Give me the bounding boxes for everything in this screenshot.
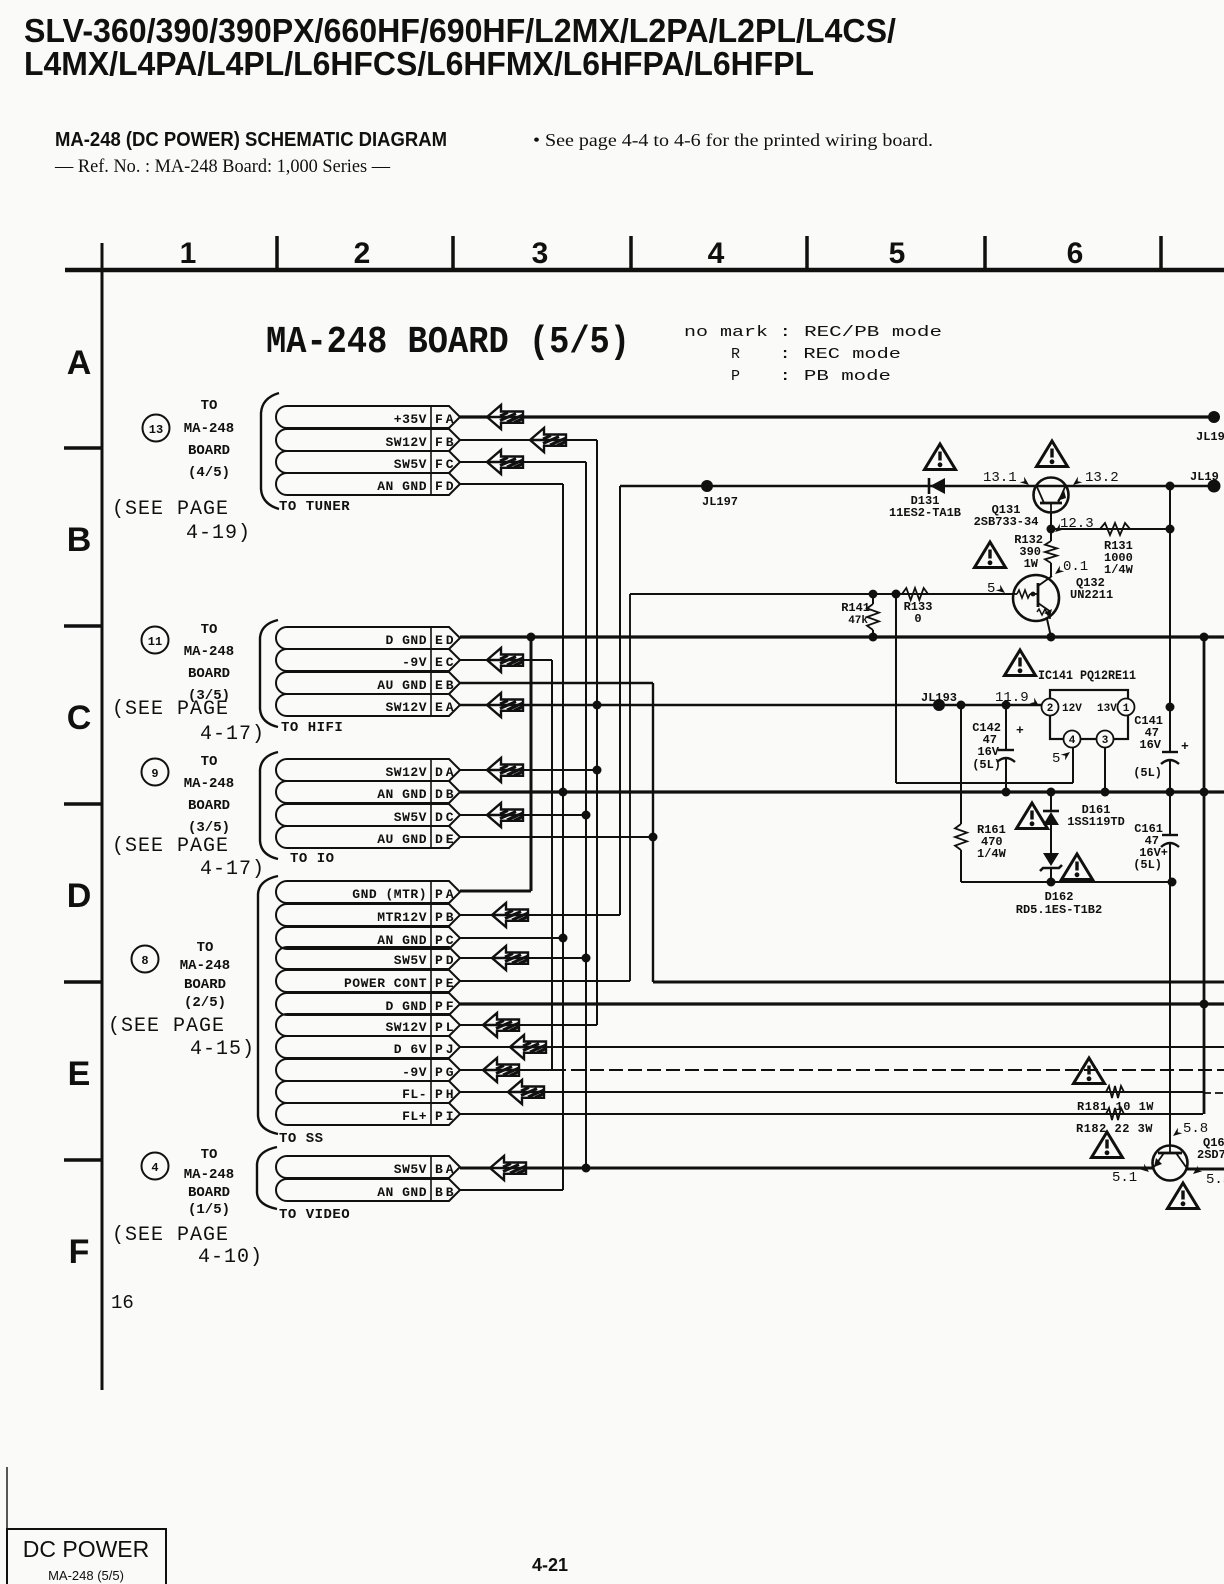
svg-text:47k: 47k — [848, 615, 868, 627]
transistor Q131 2SB733-34 — [1034, 478, 1069, 513]
svg-text:no mark: no mark — [684, 324, 768, 341]
svg-text:(SEE PAGE: (SEE PAGE — [112, 1224, 229, 1247]
svg-text:A: A — [67, 344, 92, 382]
wire R132 bottom lead — [1050, 563, 1052, 577]
svg-text:TO: TO — [201, 1147, 218, 1163]
voltage arrow 5.5 — [1191, 1166, 1203, 1177]
voltage arrow 5 base — [996, 585, 1008, 596]
resistor R133 0 — [902, 588, 928, 600]
svg-text:2: 2 — [354, 237, 371, 270]
connector pin PG (-9V) — [276, 1059, 460, 1081]
wire PG -9V stub — [460, 1069, 552, 1071]
svg-text:TO TUNER: TO TUNER — [279, 499, 350, 515]
svg-text:11: 11 — [148, 635, 162, 649]
svg-text:11ES2-TA1B: 11ES2-TA1B — [889, 506, 961, 520]
footer DC POWER box — [7, 1529, 166, 1584]
wire BB AN GND stub — [460, 1189, 563, 1191]
wire IC141 pin4 lead — [1072, 747, 1074, 783]
svg-text:SW12V: SW12V — [385, 700, 427, 715]
node DA end — [593, 766, 602, 775]
voltage arrow 12.3 — [1053, 524, 1065, 535]
svg-text:EC: EC — [435, 655, 457, 670]
svg-text:EB: EB — [435, 678, 457, 693]
grid column tick 5 — [983, 236, 987, 270]
svg-text:13.2: 13.2 — [1085, 470, 1119, 486]
node JL193 — [933, 699, 945, 711]
svg-text:(5L): (5L) — [972, 758, 1001, 772]
svg-text:13: 13 — [149, 423, 163, 437]
wire JL197 13V line — [620, 485, 1214, 488]
svg-text:(SEE PAGE: (SEE PAGE — [108, 1015, 225, 1038]
svg-text:D 6V: D 6V — [394, 1042, 427, 1057]
svg-text:D162: D162 — [1045, 890, 1074, 904]
svg-text:DB: DB — [435, 787, 457, 802]
wire PE POWER CONT stub — [460, 980, 630, 982]
voltage arrow 13.2 — [1071, 477, 1083, 488]
svg-text:(2/5): (2/5) — [184, 995, 226, 1011]
node JL197 — [701, 480, 713, 492]
svg-text:B: B — [67, 521, 92, 559]
svg-text:• See page 4-4 to 4-6 for the: • See page 4-4 to 4-6 for the printed wi… — [533, 130, 933, 150]
svg-text:AN GND: AN GND — [377, 1185, 427, 1200]
connector pin DE (AU GND) — [276, 826, 460, 848]
wire PL SW12V stub — [460, 1024, 597, 1026]
node 13V bus top — [1166, 482, 1175, 491]
svg-text:5.1: 5.1 — [1112, 1170, 1137, 1186]
svg-text:SW5V: SW5V — [394, 457, 427, 472]
svg-text:PC: PC — [435, 933, 457, 948]
resistor R182 22 3W — [1106, 1108, 1124, 1120]
svg-text:(5L): (5L) — [1133, 858, 1162, 872]
node PC end — [559, 934, 568, 943]
svg-text:DA: DA — [435, 765, 457, 780]
connector pin PJ (D 6V) — [276, 1036, 460, 1058]
warning triangle above IC141 — [1005, 650, 1036, 676]
svg-text:PH: PH — [435, 1087, 457, 1102]
wire POWER CONT vertical PE-base — [629, 594, 631, 981]
svg-text:2SB733-34: 2SB733-34 — [974, 515, 1039, 529]
svg-text:1/4W: 1/4W — [1104, 563, 1134, 577]
svg-text:0.1: 0.1 — [1063, 559, 1088, 575]
node FA-JL19 edge — [1208, 411, 1220, 423]
warning triangle near D162 — [1062, 854, 1093, 880]
svg-text:SW5V: SW5V — [394, 953, 427, 968]
connector 13 ref circle — [143, 415, 170, 442]
svg-text:BOARD: BOARD — [188, 1185, 230, 1201]
svg-text:R182 22 3W: R182 22 3W — [1076, 1122, 1153, 1136]
resistor R131 1000 1/4W — [1100, 523, 1130, 535]
svg-text:SLV-360/390/390PX/660HF/690HF/: SLV-360/390/390PX/660HF/690HF/L2MX/L2PA/… — [24, 12, 896, 49]
svg-text:SW5V: SW5V — [394, 810, 427, 825]
connector pin EA (SW12V) — [276, 694, 460, 716]
wire AN GND vertical FD-BB — [562, 484, 564, 1190]
connector 11 ref circle — [142, 627, 169, 654]
wire DA SW12V stub — [460, 769, 597, 771]
wire IC141 pin3 lead — [1104, 747, 1106, 792]
grid row tick D/E — [64, 980, 102, 984]
wire FB SW12V stub — [460, 439, 597, 441]
svg-text:13V: 13V — [1097, 703, 1117, 715]
connector pin ED (D GND) — [276, 627, 460, 649]
warning triangle above Q131 — [1037, 441, 1068, 467]
wire EB AU GND stub — [460, 682, 653, 684]
connector 8 brace — [258, 876, 278, 1134]
svg-text:2SD7: 2SD7 — [1197, 1148, 1224, 1162]
svg-text:MTR12V: MTR12V — [377, 910, 427, 925]
svg-text:9: 9 — [151, 767, 158, 781]
capacitor C161 47uF — [1161, 835, 1179, 847]
hatched arrow DA — [487, 758, 523, 782]
wire PB MTR12V stub — [460, 914, 620, 916]
warning triangle near R132 — [975, 542, 1006, 568]
wire EC -9V stub — [460, 659, 552, 661]
grid row tick B/C — [64, 624, 102, 628]
wire DB AN GND rail — [460, 790, 1224, 793]
diode D161 1SS119TD — [1043, 811, 1059, 825]
svg-text:TO: TO — [201, 622, 218, 638]
footer stray left border — [6, 1467, 8, 1530]
wire R141 bottom lead — [872, 630, 874, 637]
svg-text:TO: TO — [197, 940, 214, 956]
svg-text:1SS119TD: 1SS119TD — [1067, 815, 1125, 829]
wire FC SW5V stub — [460, 461, 586, 463]
node DB-1204 — [1200, 788, 1209, 797]
hatched arrow FA — [487, 405, 523, 429]
resistor R161 470 1/4W — [955, 824, 967, 850]
node EA-597 SW12V — [593, 701, 602, 710]
svg-text:-9V: -9V — [402, 1065, 427, 1080]
svg-text:0: 0 — [914, 612, 921, 626]
node EA-C142 — [1002, 701, 1011, 710]
svg-text:4-17): 4-17) — [200, 723, 265, 746]
svg-text:PI: PI — [435, 1109, 457, 1124]
svg-text:DE: DE — [435, 832, 457, 847]
svg-text:MA-248: MA-248 — [184, 421, 234, 437]
node EA-R161 — [957, 701, 966, 710]
warning triangle below Q161 — [1168, 1183, 1199, 1209]
svg-text:4-21: 4-21 — [532, 1555, 568, 1575]
svg-text:AU GND: AU GND — [377, 678, 427, 693]
connector pin DC (SW5V) — [276, 804, 460, 826]
node JL19 right edge — [1208, 480, 1221, 493]
wire BA SW5V rail — [460, 1167, 1153, 1170]
wire PI FL+ line — [460, 1113, 1203, 1115]
transistor Q161 2SD7xx — [1153, 1146, 1188, 1181]
svg-text:SW12V: SW12V — [385, 1020, 427, 1035]
wire ED D GND rail — [460, 635, 1224, 638]
svg-text:ED: ED — [435, 633, 457, 648]
diode D131 11ES2-TA1B — [929, 478, 945, 494]
svg-text:: PB mode: : PB mode — [779, 368, 891, 385]
connector pin PE (POWER CONT) — [276, 970, 460, 992]
svg-text:5: 5 — [889, 237, 906, 270]
wire R141 top lead — [872, 594, 874, 604]
svg-text:TO HIFI: TO HIFI — [281, 720, 343, 736]
svg-text:5: 5 — [1052, 751, 1060, 767]
connector pin EB (AU GND) — [276, 672, 460, 694]
svg-text:BOARD: BOARD — [188, 443, 230, 459]
svg-text:+35V: +35V — [394, 412, 427, 427]
svg-text:AN GND: AN GND — [377, 933, 427, 948]
hatched arrow FB — [530, 428, 566, 452]
svg-text:FL-: FL- — [402, 1087, 427, 1102]
voltage arrow 13.1 — [1020, 477, 1032, 488]
svg-text:TO SS: TO SS — [279, 1131, 324, 1147]
wire C141 below lead — [1169, 760, 1171, 835]
svg-text:SW12V: SW12V — [385, 765, 427, 780]
svg-text:PA: PA — [435, 887, 457, 902]
wire AU GND vertical EB-rail — [652, 683, 654, 982]
svg-text:MA-248 BOARD (5/5): MA-248 BOARD (5/5) — [266, 321, 630, 364]
node zener rail right — [1168, 878, 1177, 887]
wire D GND vertical to PA — [530, 637, 533, 891]
svg-text:C: C — [67, 699, 92, 737]
svg-text:SW5V: SW5V — [394, 1162, 427, 1177]
svg-text:— Ref. No. : MA-248 Board: 1,0: — Ref. No. : MA-248 Board: 1,000 Series … — [54, 156, 391, 177]
svg-text:16V: 16V — [1139, 738, 1161, 752]
regulator IC141 PQ12RE11 — [1042, 690, 1135, 748]
svg-text:FA: FA — [435, 412, 457, 427]
svg-text:DC POWER: DC POWER — [23, 1536, 150, 1562]
svg-text:MA-248: MA-248 — [184, 1167, 234, 1183]
hatched arrow EC — [487, 648, 523, 672]
svg-text:PG: PG — [435, 1065, 457, 1080]
wire 13V vertical JL197-PB — [619, 486, 621, 915]
svg-text:PB: PB — [435, 910, 457, 925]
voltage arrow 5.8 — [1171, 1128, 1183, 1139]
svg-text:D: D — [67, 877, 92, 915]
svg-text:-9V: -9V — [402, 655, 427, 670]
node base-feedback — [892, 590, 901, 599]
node DB-pin3 — [1101, 788, 1110, 797]
wire EA SW12V line — [460, 704, 1042, 706]
wire -9V vertical EC-PG — [551, 660, 553, 1070]
svg-text:(SEE PAGE: (SEE PAGE — [112, 835, 229, 858]
connector pin PF (D GND) — [276, 993, 460, 1015]
connector pin DB (AN GND) — [276, 781, 460, 803]
node PF-1204 — [1200, 1000, 1209, 1009]
svg-text:L4MX/L4PA/L4PL/L6HFCS/L6HFMX/L: L4MX/L4PA/L4PL/L6HFCS/L6HFMX/L6HFPA/L6HF… — [24, 45, 814, 82]
hatched arrow DC — [487, 803, 523, 827]
node base-R141 — [869, 590, 878, 599]
svg-text:PD: PD — [435, 953, 457, 968]
svg-text:BOARD: BOARD — [188, 666, 230, 682]
svg-text:3: 3 — [1102, 735, 1109, 747]
warning triangle below R182 — [1092, 1132, 1123, 1158]
hatched arrow PB — [492, 903, 528, 927]
wire R131 left lead — [1090, 528, 1100, 530]
grid column tick 2 — [451, 236, 455, 270]
voltage arrow 11.9 — [1030, 698, 1042, 709]
svg-text:4: 4 — [708, 237, 725, 270]
svg-text:R141: R141 — [841, 601, 870, 615]
connector pin PI (FL+) — [276, 1103, 460, 1125]
wire zener bias rail — [961, 881, 1172, 883]
wire FA +35V rail — [460, 415, 1214, 418]
voltage arrow 0.1 — [1053, 566, 1065, 577]
wire PJ D 6V line — [460, 1046, 1224, 1048]
svg-text:6: 6 — [1067, 237, 1084, 270]
wire PH FL- line — [460, 1091, 1203, 1093]
node PD end — [582, 954, 591, 963]
svg-text:JL19: JL19 — [1196, 430, 1224, 444]
wire R161 bottom lead — [960, 850, 962, 882]
svg-text:1: 1 — [1123, 703, 1130, 715]
svg-text:PE: PE — [435, 976, 457, 991]
grid row tick A/B — [64, 446, 102, 450]
hatched arrow PD — [492, 946, 528, 970]
svg-text:MA-248: MA-248 — [184, 644, 234, 660]
svg-text:DC: DC — [435, 810, 457, 825]
svg-text:PL: PL — [435, 1020, 457, 1035]
grid column tick 3 — [629, 236, 633, 270]
resistor R132 390 1W — [1045, 541, 1057, 563]
wire PD SW5V stub — [460, 957, 586, 959]
node 12.3 right — [1166, 525, 1175, 534]
connector pin PC (AN GND) — [276, 927, 460, 949]
svg-text:PF: PF — [435, 999, 457, 1014]
wire D GND vertical right bus — [1203, 637, 1206, 1114]
svg-text:P: P — [731, 368, 740, 385]
svg-text:FD: FD — [435, 479, 457, 494]
wire PG -9V dashed line — [552, 1069, 1224, 1071]
node zener rail mid — [1047, 878, 1056, 887]
svg-text:PJ: PJ — [435, 1042, 457, 1057]
hatched arrow BA — [490, 1156, 526, 1180]
svg-text:AN GND: AN GND — [377, 479, 427, 494]
wire C142 top lead — [1005, 705, 1007, 750]
connector pin BA (SW5V) — [276, 1156, 460, 1178]
svg-text:JL197: JL197 — [702, 495, 738, 509]
svg-text:BB: BB — [435, 1185, 457, 1200]
wire PH FL- dashed tail — [1203, 1092, 1224, 1094]
node DE end — [649, 833, 658, 842]
wire 12.3V node line — [1051, 528, 1170, 530]
svg-text:5.5: 5.5 — [1206, 1172, 1224, 1188]
svg-text:TO VIDEO: TO VIDEO — [279, 1207, 350, 1223]
wire R161 branch vertical — [960, 705, 962, 824]
warning triangle near D161 — [1017, 803, 1048, 829]
svg-text:1W: 1W — [1024, 557, 1039, 571]
connector pin FB (SW12V) — [276, 429, 460, 451]
grid column tick 4 — [805, 236, 809, 270]
connector pin DA (SW12V) — [276, 759, 460, 781]
svg-text:FC: FC — [435, 457, 457, 472]
grid column tick 1 — [275, 236, 279, 270]
wire R132 top lead — [1050, 529, 1052, 541]
wire FD AN GND stub — [460, 483, 563, 485]
wire R131 right lead — [1130, 528, 1170, 530]
svg-text:IC141 PQ12RE11: IC141 PQ12RE11 — [1038, 668, 1136, 683]
warning triangle above R181 — [1074, 1058, 1105, 1084]
svg-text:13.1: 13.1 — [983, 470, 1017, 486]
svg-text:R: R — [731, 346, 740, 363]
svg-text:(1/5): (1/5) — [188, 1202, 230, 1218]
svg-text:TO: TO — [201, 398, 218, 414]
node DB-C142 — [1002, 788, 1011, 797]
svg-text:EA: EA — [435, 700, 457, 715]
connector pin EC (-9V) — [276, 649, 460, 671]
svg-text:5: 5 — [987, 581, 995, 597]
connector pin PB (MTR12V) — [276, 904, 460, 926]
connector pin FA (+35V) — [276, 406, 460, 428]
svg-text:8: 8 — [141, 954, 148, 968]
hatched arrow PL — [483, 1013, 519, 1037]
svg-text:SW12V: SW12V — [385, 435, 427, 450]
svg-text:16: 16 — [111, 1292, 134, 1314]
node DC end — [582, 811, 591, 820]
svg-text:F: F — [69, 1233, 90, 1271]
svg-text:(SEE PAGE: (SEE PAGE — [112, 698, 229, 721]
hatched arrow FC — [487, 450, 523, 474]
svg-text:4: 4 — [1069, 735, 1076, 747]
capacitor C142 47uF — [997, 723, 1024, 762]
svg-text:D GND: D GND — [385, 633, 427, 648]
connector 13 brace — [261, 393, 279, 509]
node IC141 pin1 joint — [1166, 703, 1175, 712]
grid row tick E/F — [64, 1158, 102, 1162]
wire Q131 collector stub — [1050, 512, 1052, 529]
svg-text:MA-248: MA-248 — [180, 958, 230, 974]
svg-text:12.3: 12.3 — [1060, 516, 1094, 532]
svg-text:TO IO: TO IO — [290, 851, 335, 867]
wire DE AU GND stub — [460, 836, 653, 838]
svg-text:4: 4 — [151, 1161, 158, 1175]
svg-text:E: E — [68, 1055, 91, 1093]
svg-text:JL19: JL19 — [1190, 470, 1219, 484]
svg-text:(4/5): (4/5) — [188, 465, 230, 481]
svg-text:MA-248: MA-248 — [184, 776, 234, 792]
hatched arrow EA — [487, 693, 523, 717]
voltage arrow 5 pin4 — [1061, 749, 1073, 760]
svg-text:(SEE PAGE: (SEE PAGE — [112, 498, 229, 521]
svg-text:AU GND: AU GND — [377, 832, 427, 847]
svg-text:: REC mode: : REC mode — [779, 346, 901, 363]
svg-text:POWER CONT: POWER CONT — [344, 976, 427, 991]
svg-text:FB: FB — [435, 435, 457, 450]
svg-text:(5L): (5L) — [1133, 766, 1162, 780]
hatched arrow PJ — [510, 1035, 546, 1059]
wire PC AN GND stub — [460, 937, 563, 939]
wire PF D GND rail — [460, 1002, 1224, 1005]
hatched arrow PG — [483, 1058, 519, 1082]
connector 4 ref circle — [142, 1153, 169, 1180]
connector 4 brace — [257, 1147, 277, 1209]
resistor R181 10 1W — [1106, 1086, 1124, 1098]
node DB-C141 — [1166, 788, 1175, 797]
svg-text:D GND: D GND — [385, 999, 427, 1014]
node ED-531 — [527, 633, 536, 642]
svg-text:+: + — [1181, 739, 1189, 754]
svg-text:5.8: 5.8 — [1183, 1121, 1208, 1137]
connector pin BB (AN GND) — [276, 1179, 460, 1201]
wire IC141 pin4 feedback — [896, 782, 1073, 784]
transistor Q132 UN2211 — [1013, 575, 1059, 621]
voltage arrow 5.1 — [1140, 1164, 1152, 1175]
svg-text:1/4W: 1/4W — [977, 847, 1007, 861]
svg-text:4-17): 4-17) — [200, 858, 265, 881]
connector pin PH (FL-) — [276, 1081, 460, 1103]
grid row tick C/D — [64, 802, 102, 806]
svg-text:11.9: 11.9 — [995, 690, 1029, 706]
svg-text:4-15): 4-15) — [190, 1038, 255, 1061]
svg-text:JL193: JL193 — [921, 691, 957, 705]
svg-text:BOARD: BOARD — [184, 977, 226, 993]
svg-text:MA-248 (DC POWER) SCHEMATIC DI: MA-248 (DC POWER) SCHEMATIC DIAGRAM — [55, 129, 447, 151]
wire Q132 emitter stub — [1047, 619, 1051, 637]
connector pin FD (AN GND) — [276, 473, 460, 495]
grid column tick 6 — [1159, 236, 1163, 270]
